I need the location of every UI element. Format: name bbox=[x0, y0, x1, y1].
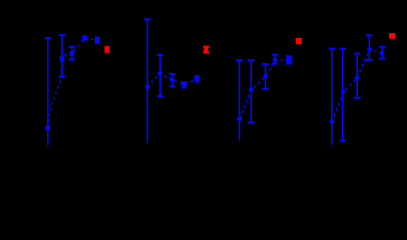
panel 4 error bar 2 bbox=[342, 49, 344, 141]
panel 2 error bar 4 bbox=[183, 82, 185, 88]
panel 3 data marker 4 bbox=[272, 57, 278, 63]
panel 4 data marker 1 bbox=[329, 119, 335, 125]
panel 3 data marker 5 bbox=[285, 56, 293, 64]
panel 4 data marker 5 bbox=[379, 50, 385, 56]
panel 2 red reference marker with error bar bbox=[203, 47, 209, 53]
panel 4 data marker 3 bbox=[354, 75, 360, 81]
panel 3 red reference marker with error bar bbox=[296, 38, 302, 44]
panel 2 error bar 1 bbox=[146, 19, 148, 141]
panel 3 error bar 3 bbox=[264, 64, 266, 89]
panel 1 error bar 1 bbox=[47, 38, 49, 144]
panel 3 data marker 3 bbox=[263, 74, 269, 80]
panel 3 data marker 2 bbox=[248, 87, 254, 93]
panel 4 error bar 1 bbox=[331, 49, 333, 143]
panel 3 error bar 5 bbox=[288, 56, 290, 63]
panel 2 data marker 5 bbox=[194, 76, 200, 82]
panel 4 error bar 5 bbox=[381, 47, 383, 59]
panel 2 error bar 2 bbox=[159, 55, 161, 96]
panel 1 data marker 1 bbox=[46, 126, 51, 131]
panel 2 error bar 5 bbox=[196, 76, 198, 82]
panel 3 data marker 1 bbox=[237, 116, 243, 122]
panel 2 error bar 3 bbox=[171, 74, 173, 87]
panel 3 error bar 2 bbox=[250, 60, 252, 122]
panel 4 error bar 4 bbox=[368, 35, 370, 60]
panel 4 data marker 2 bbox=[340, 89, 346, 95]
panel 1 data marker 5 bbox=[95, 38, 100, 43]
panel 1 red reference marker with error bar bbox=[105, 46, 110, 53]
panel 4 data marker 4 bbox=[367, 46, 373, 52]
panel 3 dashed series line bbox=[239, 60, 289, 119]
panel 1 error bar 2 bbox=[61, 35, 63, 77]
panel 1 error bar 3 bbox=[71, 47, 73, 60]
panel 3 error bar 4 bbox=[274, 55, 276, 64]
panel 1 error bar 5 bbox=[96, 38, 98, 43]
panel 1 dashed series line bbox=[48, 38, 98, 128]
panel 4 error bar 3 bbox=[356, 54, 358, 98]
panel 4 dashed series line bbox=[332, 49, 382, 121]
panel 2 data marker 4 bbox=[181, 82, 187, 88]
panel 2 data marker 1 bbox=[145, 84, 151, 90]
panel 2 data marker 2 bbox=[157, 70, 163, 76]
panel 2 data marker 3 bbox=[169, 77, 175, 83]
panel 4 red reference marker with error bar bbox=[389, 33, 395, 39]
panel 1 data marker 3 bbox=[70, 51, 75, 56]
panel 3 error bar 1 bbox=[238, 60, 240, 138]
panel 1 data marker 2 bbox=[60, 56, 65, 61]
panel 1 data marker 4 bbox=[82, 35, 87, 40]
panel 2 dashed series line bbox=[148, 73, 198, 87]
